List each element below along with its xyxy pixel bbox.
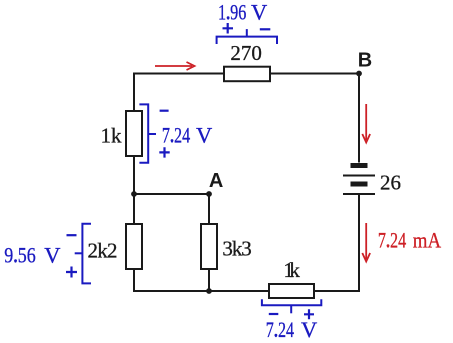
svg-text:1k: 1k xyxy=(101,123,123,147)
svg-text:270: 270 xyxy=(230,41,262,65)
svg-text:A: A xyxy=(209,170,223,192)
svg-text:26: 26 xyxy=(380,171,401,195)
svg-text:V: V xyxy=(44,243,60,268)
svg-text:1.96: 1.96 xyxy=(218,1,247,25)
svg-text:9.56: 9.56 xyxy=(4,244,35,268)
svg-text:7.24: 7.24 xyxy=(378,229,407,253)
svg-text:7.24: 7.24 xyxy=(266,319,295,343)
svg-text:V: V xyxy=(251,0,267,25)
svg-text:B: B xyxy=(358,49,372,71)
svg-text:V: V xyxy=(196,123,212,148)
svg-text:mA: mA xyxy=(413,228,441,253)
svg-text:1k: 1k xyxy=(283,258,300,282)
svg-text:7.24: 7.24 xyxy=(162,124,191,148)
svg-text:V: V xyxy=(301,317,317,342)
svg-text:2k2: 2k2 xyxy=(88,239,118,263)
svg-text:3k3: 3k3 xyxy=(222,237,251,261)
